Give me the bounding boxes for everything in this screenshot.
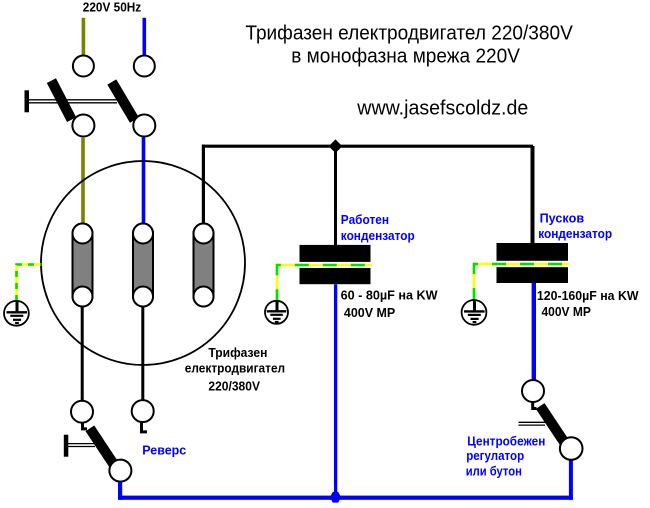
svg-text:220/380V: 220/380V (208, 379, 260, 394)
svg-text:Трифазен електродвигател 220/3: Трифазен електродвигател 220/380V (245, 23, 573, 45)
svg-text:Пусков: Пусков (540, 211, 585, 226)
svg-text:60 - 80µF на KW: 60 - 80µF на KW (341, 287, 439, 302)
svg-text:Реверс: Реверс (142, 442, 186, 457)
svg-text:120-160µF на KW: 120-160µF на KW (537, 288, 639, 303)
svg-text:Работен: Работен (341, 212, 389, 227)
svg-text:www.jasefscoldz.de: www.jasefscoldz.de (356, 98, 528, 120)
svg-text:400V MP: 400V MP (344, 305, 396, 320)
svg-text:Центробежен: Центробежен (467, 433, 545, 448)
svg-text:в монофазна мрежа 220V: в монофазна мрежа 220V (291, 45, 520, 67)
svg-text:електродвигател: електродвигател (185, 360, 285, 375)
svg-text:220V 50Hz: 220V 50Hz (83, 1, 141, 15)
svg-text:регулатор: регулатор (466, 448, 524, 463)
svg-text:кондензатор: кондензатор (341, 228, 415, 243)
svg-text:400V MP: 400V MP (542, 304, 592, 319)
svg-text:Трифазен: Трифазен (208, 345, 267, 360)
svg-text:кондензатор: кондензатор (538, 226, 612, 241)
svg-text:или бутон: или бутон (466, 464, 522, 479)
